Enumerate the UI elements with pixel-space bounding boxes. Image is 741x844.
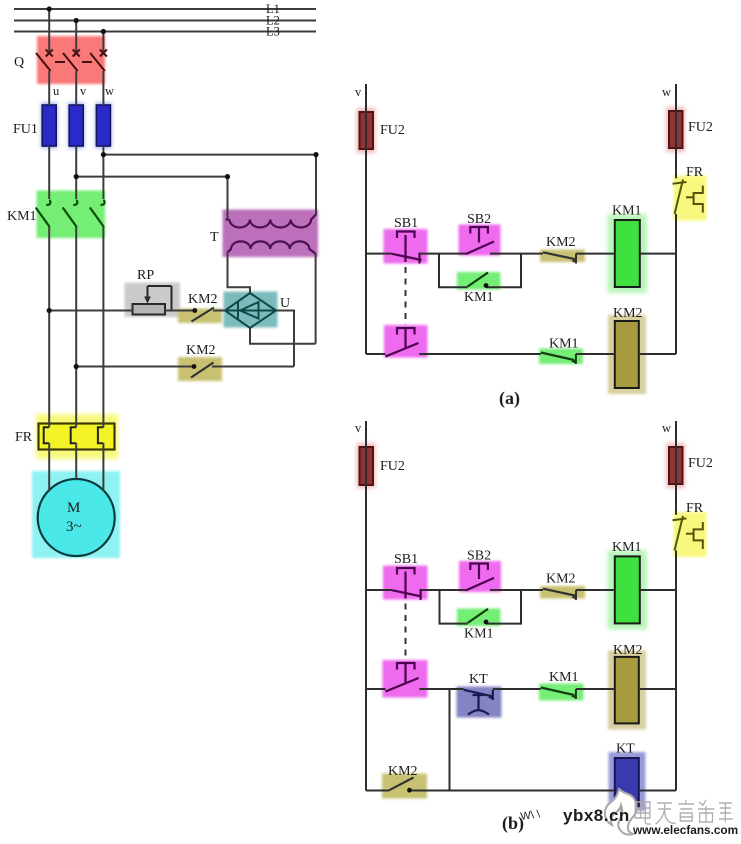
watermark flame logo: [605, 789, 637, 835]
fuse FU2 right (circuit a): [666, 107, 713, 152]
junction L2/v: [74, 18, 79, 23]
terminal dot KM1 self-lock a: [484, 283, 489, 288]
contactor KM1 main contacts: [7, 191, 105, 239]
junction u phase RP rung: [47, 308, 52, 313]
svg-text:FU1: FU1: [13, 122, 38, 137]
svg-text:W\ \: W\ \: [520, 808, 542, 823]
svg-text:(a): (a): [499, 388, 520, 409]
pushbutton SB2 (circuit a, NO start): [459, 212, 501, 256]
transformer T: [210, 210, 318, 258]
svg-text:SB2: SB2: [467, 549, 491, 564]
wire rung1 b: KM2 contact to KM1 coil: [576, 589, 615, 591]
fuse FU1 phase w: [13, 103, 111, 148]
wire right rail upper circuit b: [675, 421, 677, 515]
svg-text:3~: 3~: [66, 519, 82, 535]
svg-text:KM1: KM1: [464, 627, 494, 642]
wire left rail circuit b: [365, 421, 367, 791]
svg-text:w: w: [662, 421, 671, 435]
wire rung2 b: KT contact to KM1 contact: [493, 688, 541, 690]
svg-text:FR: FR: [686, 501, 704, 516]
pushbutton SB1 lower contact (circuit a rung 2, NO): [384, 325, 428, 358]
svg-text:KT: KT: [616, 742, 635, 757]
terminal dot KM2 rectifier contact: [192, 308, 197, 313]
terminal dot KM2 braking contact: [192, 364, 197, 369]
svg-text:FU2: FU2: [380, 459, 405, 474]
svg-text:KM2: KM2: [186, 343, 216, 358]
wire rung2 a: KM1 contact to KM2 coil: [576, 353, 615, 355]
time relay contact KT (circuit b, delayed): [457, 672, 502, 718]
terminal dot KM1 self-lock b: [484, 620, 489, 625]
junction L1/u: [47, 6, 52, 11]
svg-text:www.elecfans.com: www.elecfans.com: [632, 823, 738, 837]
mechanical linkage SB1 (circuit b, dashed): [405, 604, 407, 662]
wire RP to KM2 contact: [165, 310, 195, 312]
svg-text:SB1: SB1: [394, 216, 418, 231]
svg-text:KM2: KM2: [388, 764, 418, 779]
svg-text:v: v: [355, 85, 362, 99]
wire transformer secondary right down: [315, 253, 317, 344]
contactor contact KM2 (rectifier feed, NO): [178, 292, 222, 323]
junction v branch: [74, 174, 79, 179]
auxiliary contact KM2 self-lock (circuit b bottom rung, NO): [382, 764, 427, 799]
svg-text:KM1: KM1: [612, 204, 642, 219]
wire right rail lower circuit a: [675, 214, 677, 354]
svg-text:KM2: KM2: [613, 306, 643, 321]
wire rung1 b: SB1 to SB2: [421, 589, 466, 591]
wire rung1 a: rail to SB1: [366, 253, 392, 255]
terminal dot KM2 self-lock b: [407, 788, 412, 793]
wire rung2 a: KM2 coil to right rail: [639, 353, 676, 355]
wire u phase to RP: [49, 310, 132, 312]
svg-text:KM2: KM2: [546, 572, 576, 587]
junction transformer primary left: [225, 174, 230, 179]
coil KM2 (circuit b): [608, 643, 646, 730]
fuse FU2 left (circuit b): [357, 443, 405, 488]
rectifier bridge U: [224, 292, 291, 329]
coil KT (circuit b): [609, 742, 646, 812]
wire left rail circuit a: [365, 84, 367, 354]
svg-text:FU2: FU2: [380, 123, 405, 138]
junction transformer primary right: [313, 152, 318, 157]
interlock contact KM2 (circuit a, NC): [540, 235, 585, 264]
svg-text:KM2: KM2: [613, 643, 643, 658]
svg-text:SB2: SB2: [467, 212, 491, 227]
svg-text:Q: Q: [14, 55, 24, 70]
fuse FU2 right (circuit b): [666, 443, 713, 488]
coil KM1 (circuit a): [608, 204, 648, 294]
svg-text:SB1: SB1: [394, 552, 418, 567]
svg-text:FR: FR: [686, 165, 704, 180]
wire self-lock branch circuit b: [440, 590, 522, 624]
pushbutton SB1 upper contact (circuit b, NC): [383, 552, 428, 600]
wire bridge right to braking rung: [276, 311, 294, 367]
svg-text:KM2: KM2: [188, 292, 218, 307]
svg-text:FR: FR: [15, 430, 33, 445]
wire FR to motor phase w: [102, 443, 104, 491]
wire rung2 b: rail to SB1 lower: [366, 688, 386, 690]
wire rung1 a: KM2 contact to KM1 coil: [576, 253, 615, 255]
wire rung1 b: KM1 coil to right rail: [640, 589, 676, 591]
wire bus L1: [14, 8, 316, 10]
svg-text:KM1: KM1: [464, 290, 494, 305]
wire bus L3: [14, 31, 316, 33]
wire bridge bottom to right riser: [250, 328, 316, 344]
svg-text:KM1: KM1: [7, 209, 37, 224]
WIRES: [14, 9, 316, 492]
wire rung2 b: KM1 contact to KM2 coil: [576, 688, 615, 690]
interlock contact KM2 (circuit b, NC): [540, 572, 585, 600]
motor M 3~: [32, 471, 120, 558]
wire Q to FU1 phase u: [48, 71, 50, 105]
wire w branch to transformer primary right: [103, 155, 316, 215]
interlock contact KM1 (circuit b rung 2, NC): [539, 670, 584, 701]
fuse FU1 phase u: [41, 103, 57, 148]
junction L3/w: [101, 29, 106, 34]
watermark chinese characters: [635, 800, 733, 824]
svg-text:M: M: [67, 500, 80, 516]
svg-text:KM2: KM2: [546, 235, 576, 250]
wire rung1 b: SB2 to KM2 contact: [490, 589, 543, 591]
pushbutton SB1 upper contact (circuit a, NC): [384, 216, 428, 264]
potentiometer RP: [125, 268, 181, 317]
wire FU1 to KM1 phase v: [75, 146, 77, 199]
wire KM2 contact to bridge left: [213, 310, 225, 312]
wire L1 to Q pole u: [48, 9, 50, 52]
junction w branch: [101, 152, 106, 157]
auxiliary contact KM1 self-lock (circuit a, NO): [457, 272, 501, 305]
svg-text:w: w: [105, 84, 114, 98]
wire rung2 b: KM2 coil to right rail: [639, 688, 676, 690]
svg-text:FU2: FU2: [688, 456, 713, 471]
svg-text:FU2: FU2: [688, 120, 713, 135]
wire KM1 to FR phase w: [102, 227, 104, 427]
wire v phase to braking KM2 contact: [76, 366, 195, 368]
wire rung2 a: rail to SB1 lower: [366, 353, 386, 355]
wire KM1 to FR phase u: [48, 227, 50, 427]
svg-text:w: w: [662, 85, 671, 99]
wire bottom rung b: KT coil to right rail: [639, 790, 676, 792]
interlock contact KM1 (circuit a rung 2, NC): [539, 337, 583, 365]
svg-text:RP: RP: [137, 268, 154, 283]
wire bus L2: [14, 20, 316, 22]
wire rung1 a: KM1 coil to right rail: [640, 253, 676, 255]
wire KM1 to FR phase v: [75, 227, 77, 427]
wire KT branch vertical: [449, 689, 451, 791]
svg-text:U: U: [280, 296, 290, 311]
thermal relay contact FR (circuit a, NC): [673, 165, 707, 221]
wire FU1 to KM1 phase u: [48, 146, 50, 199]
svg-text:KT: KT: [469, 672, 488, 687]
wire rung1 a: SB2 to KM2 contact: [490, 253, 543, 255]
wire self-lock branch circuit a: [439, 254, 521, 288]
fuse FU1 phase v: [68, 103, 84, 148]
pushbutton SB2 (circuit b, NO start): [459, 549, 501, 593]
wire L3 to Q pole w: [102, 32, 104, 52]
wire FR to motor phase u: [48, 443, 50, 491]
wire FU1 to KM1 phase w: [102, 146, 104, 199]
svg-text:v: v: [80, 84, 87, 98]
wire rung1 b: rail to SB1: [366, 589, 392, 591]
svg-text:KM1: KM1: [549, 337, 579, 352]
wire FR to motor phase v: [75, 443, 77, 480]
mechanical linkage SB1 (circuit a, dashed): [405, 267, 407, 325]
wire rung1 a: SB1 to SB2: [420, 253, 467, 255]
svg-text:KM1: KM1: [612, 540, 642, 555]
wire bottom rung b: rail to KM2 contact: [366, 790, 389, 792]
coil KM2 (circuit a): [608, 306, 646, 394]
thermal relay FR heater element: [15, 414, 118, 459]
svg-text:KM1: KM1: [549, 670, 579, 685]
wire L2 to Q pole v: [75, 21, 77, 52]
svg-text:ybx8.cn: ybx8.cn: [563, 806, 630, 825]
contactor contact KM2 (dynamic braking, NO): [178, 343, 222, 381]
wire rung2 a: SB1 lower to KM1 contact: [419, 353, 541, 355]
wire right rail upper circuit a: [675, 84, 677, 178]
pushbutton SB1 lower contact (circuit b rung 2, NO): [383, 660, 428, 698]
svg-text:v: v: [355, 421, 362, 435]
svg-text:L3: L3: [266, 25, 280, 39]
wire Q to FU1 phase v: [75, 71, 77, 105]
coil KM1 (circuit b): [608, 540, 648, 630]
wire Q to FU1 phase w: [102, 71, 104, 105]
svg-text:T: T: [210, 230, 219, 245]
wire braking KM2 contact to riser: [212, 366, 294, 368]
junction v phase braking rung: [74, 364, 79, 369]
wire right rail lower circuit b: [675, 550, 677, 790]
breaker Q (3-pole knife switch): [14, 36, 107, 84]
wire transformer secondary left to bridge top: [228, 253, 251, 294]
svg-text:u: u: [53, 84, 60, 98]
wire v branch to transformer primary left: [76, 177, 227, 219]
wire rung2 b: SB1 lower to KT contact: [419, 688, 463, 690]
fuse FU2 left (circuit a): [357, 108, 405, 153]
wire bottom rung b: KM2 contact to KT coil: [410, 790, 615, 792]
thermal relay contact FR (circuit b, NC): [673, 501, 707, 557]
auxiliary contact KM1 self-lock (circuit b, NO): [457, 609, 501, 642]
